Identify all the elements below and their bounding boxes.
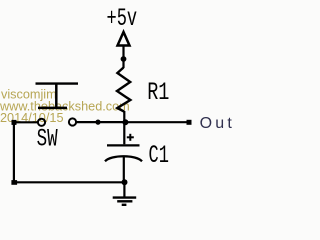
svg-text:Out: Out (200, 115, 235, 132)
ground bar 1 (113, 196, 137, 198)
wire node to Out terminal (125, 121, 187, 123)
svg-text:SW: SW (37, 126, 58, 154)
junction dot on switch wire (95, 120, 100, 125)
node junction dot (Out node) (122, 119, 128, 125)
switch SW plunger stem (55, 84, 58, 108)
capacitor C1 plus sign (127, 136, 134, 138)
wire capacitor to bottom node (123, 156, 125, 183)
junction dot above resistor (121, 56, 127, 62)
wire node to capacitor (123, 122, 125, 144)
switch SW plunger cap (36, 82, 79, 84)
corner square bottom-left (11, 180, 17, 185)
wire left vertical (13, 122, 15, 182)
corner square top-left (12, 120, 17, 125)
switch SW left terminal circle (38, 119, 45, 126)
switch SW contact bar (38, 107, 67, 110)
wire right of switch (77, 121, 126, 123)
wire resistor to node (123, 111, 125, 123)
bottom junction dot (122, 179, 128, 185)
wire bottom horizontal (14, 181, 125, 183)
capacitor C1 top plate (107, 144, 140, 146)
svg-text:C1: C1 (149, 142, 169, 170)
ground bar 3 (122, 204, 127, 206)
ground bar 2 (117, 200, 132, 202)
Out terminal square (187, 120, 192, 125)
resistor R1 (117, 68, 130, 112)
wire arrow to resistor (122, 46, 124, 68)
wire node to ground (123, 182, 125, 197)
wire left of switch (14, 121, 38, 123)
power symbol +5v arrow (118, 32, 130, 46)
capacitor C1 bottom plate (arc) (105, 156, 142, 161)
switch SW right terminal circle (69, 118, 76, 125)
svg-text:R1: R1 (147, 79, 169, 107)
svg-text:+5v: +5v (107, 5, 138, 33)
